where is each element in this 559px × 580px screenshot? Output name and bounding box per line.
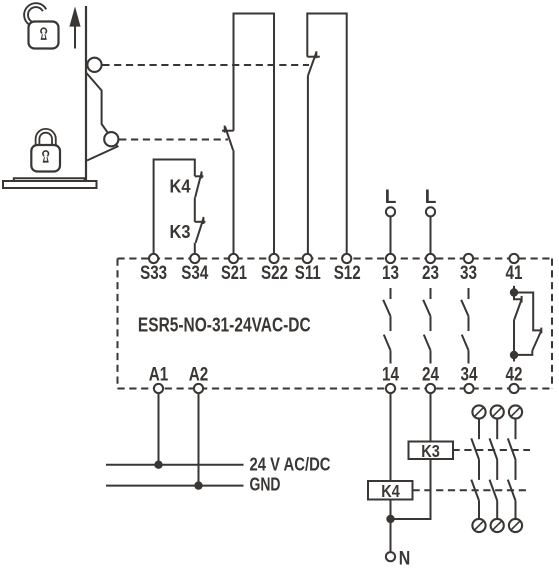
terminal 14 <box>386 384 395 393</box>
svg-text:41: 41 <box>506 263 523 284</box>
svg-text:42: 42 <box>506 364 523 385</box>
wire 14 to K4 coil <box>390 393 392 481</box>
svg-text:S34: S34 <box>181 263 208 284</box>
upper roller <box>87 58 101 72</box>
L feed 1 <box>385 187 397 254</box>
open padlock <box>26 5 58 48</box>
svg-text:24: 24 <box>422 364 439 385</box>
svg-text:34: 34 <box>461 364 478 385</box>
terminal 42 <box>509 384 518 393</box>
contactor column 3 <box>508 405 522 532</box>
svg-text:14: 14 <box>382 364 399 385</box>
svg-text:K3: K3 <box>170 221 191 242</box>
24V rail <box>106 464 244 466</box>
terminal 23 <box>426 254 435 263</box>
svg-text:S11: S11 <box>295 263 321 284</box>
terminal S11 <box>303 254 312 263</box>
svg-text:A1: A1 <box>149 364 169 385</box>
K4 coil box <box>368 481 413 500</box>
svg-text:GND: GND <box>250 475 281 495</box>
feedback loop S33 to S34 <box>154 160 195 254</box>
junction A2/GND <box>194 481 202 489</box>
junction N <box>386 515 394 523</box>
svg-text:13: 13 <box>382 263 399 284</box>
L feed 2 <box>425 187 437 254</box>
svg-text:S33: S33 <box>140 263 167 284</box>
dashed link K3 to contactor <box>453 449 531 451</box>
terminal S33 <box>149 254 158 263</box>
relay dashed box <box>118 259 553 389</box>
svg-text:L: L <box>425 187 437 208</box>
wire A2 down <box>198 393 200 486</box>
relay contact 13-14 <box>383 288 390 364</box>
wire K4 to N <box>390 500 392 553</box>
dashed link lower roller to S21 contact <box>119 139 228 141</box>
GND rail <box>106 485 244 487</box>
junction A1/24V <box>154 461 162 469</box>
lower roller <box>104 132 118 146</box>
svg-text:33: 33 <box>460 263 477 284</box>
closed padlock <box>31 131 60 172</box>
dashed link K4 to contactor <box>413 489 531 491</box>
terminal S12 <box>342 254 351 263</box>
door contact B2 (S11 branch) <box>307 51 320 254</box>
svg-text:23: 23 <box>422 263 439 284</box>
terminal S34 <box>190 254 199 263</box>
dashed link upper roller to S11 contact <box>102 64 309 66</box>
contact K3 (feedback) <box>195 217 206 254</box>
svg-text:K4: K4 <box>381 481 400 501</box>
terminal 41 <box>509 254 518 263</box>
wire loop S11 to S12 <box>307 14 346 254</box>
terminal A2 <box>194 384 203 393</box>
wire 24 to K3 coil <box>430 393 432 441</box>
svg-text:24 V AC/DC: 24 V AC/DC <box>250 455 331 475</box>
wire A1 down <box>158 393 160 465</box>
svg-text:N: N <box>399 549 411 570</box>
contact K4 (feedback) <box>195 171 204 221</box>
terminal S22 <box>269 254 278 263</box>
relay contact 41-42 (NC pair) <box>510 286 542 362</box>
svg-text:A2: A2 <box>189 364 209 385</box>
actuator lever <box>86 73 118 161</box>
wire K3 to junction <box>394 459 430 519</box>
svg-text:K4: K4 <box>170 176 192 197</box>
terminal S21 <box>229 254 238 263</box>
svg-text:K3: K3 <box>421 441 440 461</box>
guard door vertical bar <box>85 6 87 181</box>
wire loop S21 to S22 <box>234 14 275 254</box>
terminal A1 <box>154 384 163 393</box>
relay contact 33-34 <box>461 288 468 364</box>
svg-text:L: L <box>385 187 397 208</box>
svg-text:S21: S21 <box>221 263 247 284</box>
door contact B1 (S21 branch) <box>222 126 234 254</box>
svg-text:S12: S12 <box>334 263 361 284</box>
terminal 33 <box>464 254 473 263</box>
svg-text:ESR5-NO-31-24VAC-DC: ESR5-NO-31-24VAC-DC <box>138 314 311 336</box>
terminal 24 <box>426 384 435 393</box>
contactor column 2 <box>490 405 504 532</box>
svg-text:S22: S22 <box>261 263 288 284</box>
K3 coil box <box>409 442 454 460</box>
terminal 34 <box>464 384 473 393</box>
terminal 13 <box>386 254 395 263</box>
base plate <box>3 178 97 188</box>
relay contact 23-24 <box>423 288 430 364</box>
up arrow <box>69 7 80 49</box>
terminal N <box>386 552 395 561</box>
contactor column 1 <box>471 405 485 532</box>
